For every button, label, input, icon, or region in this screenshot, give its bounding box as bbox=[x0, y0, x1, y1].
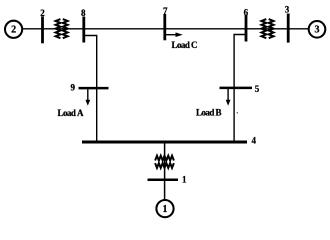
bus 4 bbox=[82, 141, 247, 144]
stray dot bbox=[237, 112, 238, 113]
transformer T1 (between bus 4 and bus 1) bbox=[155, 156, 174, 168]
svg-text:3: 3 bbox=[315, 25, 320, 36]
bus 3 bbox=[287, 14, 290, 43]
load C arrow bbox=[165, 32, 183, 37]
transformer T3 (between bus 6 and bus 3) bbox=[262, 19, 274, 38]
wire bottom drop from bus 4 to generator 1 bbox=[164, 142, 166, 200]
bus 7 bbox=[163, 14, 166, 40]
svg-text:1: 1 bbox=[182, 174, 187, 184]
bus 6 bbox=[245, 15, 248, 42]
wire stub from bus 8 to left feeder bbox=[85, 36, 97, 144]
svg-text:LoadA: LoadA bbox=[58, 108, 85, 118]
svg-text:4: 4 bbox=[252, 136, 257, 146]
svg-text:6: 6 bbox=[244, 7, 249, 17]
wire top rail from generator 2 to generator 3 bbox=[23, 28, 309, 30]
svg-text:LoadC: LoadC bbox=[172, 40, 198, 50]
load B arrow bbox=[226, 89, 231, 106]
svg-text:2: 2 bbox=[40, 8, 45, 18]
svg-text:1: 1 bbox=[163, 204, 168, 215]
bus 1 bbox=[148, 178, 179, 181]
svg-text:5: 5 bbox=[255, 84, 260, 94]
bus 5 bbox=[220, 87, 253, 90]
svg-text:2: 2 bbox=[11, 25, 16, 36]
svg-text:LoadB: LoadB bbox=[196, 108, 222, 118]
generator G2 bbox=[5, 21, 22, 38]
generator G3 bbox=[309, 21, 326, 38]
svg-text:3: 3 bbox=[285, 4, 290, 14]
load A arrow bbox=[85, 89, 90, 106]
bus 8 bbox=[82, 17, 85, 43]
bus 2 bbox=[41, 16, 44, 43]
transformer T2 (between bus 2 and bus 8) bbox=[56, 19, 68, 38]
generator G1 bbox=[156, 200, 173, 217]
svg-text:9: 9 bbox=[71, 83, 76, 93]
svg-text:8: 8 bbox=[81, 8, 86, 18]
svg-text:7: 7 bbox=[163, 6, 168, 16]
bus 9 bbox=[79, 87, 109, 90]
wire stub from bus 6 to right feeder bbox=[234, 35, 246, 144]
